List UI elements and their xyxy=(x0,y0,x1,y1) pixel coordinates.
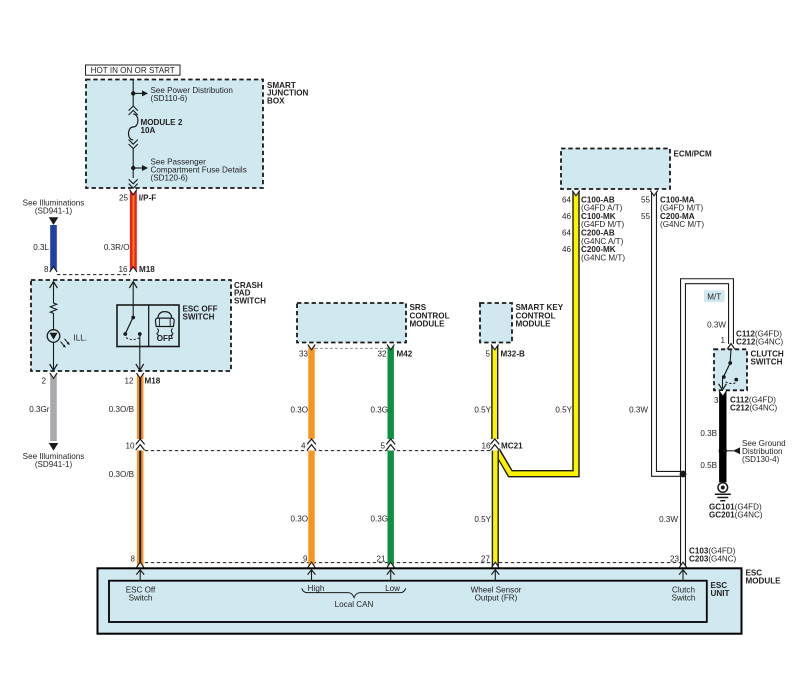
ecm yellow pin labels xyxy=(562,195,625,262)
notch orange O/B bottom xyxy=(137,562,144,567)
svg-text:MODULE: MODULE xyxy=(746,577,782,586)
svg-text:0.3G: 0.3G xyxy=(370,515,388,524)
svg-text:0.3W: 0.3W xyxy=(659,515,678,524)
esc off switch entry arrow xyxy=(136,570,144,580)
notch 0.3W bottom xyxy=(679,562,686,567)
inline connector 4 xyxy=(307,439,316,451)
svg-text:2: 2 xyxy=(41,377,46,386)
notch red wire top xyxy=(130,190,137,195)
esc white pin labels xyxy=(689,546,737,563)
svg-text:C212(G4NC): C212(G4NC) xyxy=(736,338,784,347)
svg-text:(G4NC M/T): (G4NC M/T) xyxy=(581,253,625,262)
svg-text:(G4NC M/T): (G4NC M/T) xyxy=(660,220,704,229)
svg-text:1: 1 xyxy=(720,336,725,345)
svg-text:(SD120-6): (SD120-6) xyxy=(151,174,189,183)
svg-text:Switch: Switch xyxy=(129,593,153,602)
can low entry arrow xyxy=(387,570,395,580)
svg-text:0.3O: 0.3O xyxy=(290,406,308,415)
notch CAN high bottom xyxy=(308,562,315,567)
notch blue wire bottom xyxy=(50,267,57,272)
svg-text:0.3R/O: 0.3R/O xyxy=(104,243,130,252)
svg-text:C203(G4NC): C203(G4NC) xyxy=(689,555,737,564)
svg-text:Output (FR): Output (FR) xyxy=(475,593,518,602)
srs control module body xyxy=(297,303,406,343)
notch gray wire top xyxy=(50,373,57,378)
esc module label xyxy=(746,568,782,585)
pin 25 I/P-F xyxy=(119,193,156,202)
pin 32 M42 xyxy=(377,350,412,359)
inline connector 10 xyxy=(136,439,145,451)
twisted pair dashed link xyxy=(315,347,388,349)
notch 0.5Y bottom xyxy=(492,562,499,567)
svg-text:8: 8 xyxy=(44,265,49,274)
wire 0.3W from ecm xyxy=(654,191,681,474)
svg-text:8: 8 xyxy=(130,555,135,564)
svg-text:10: 10 xyxy=(125,441,135,450)
notch 0.5Y branch top xyxy=(572,191,579,196)
svg-text:0.3O/B: 0.3O/B xyxy=(109,405,134,414)
svg-text:0.3L: 0.3L xyxy=(33,243,49,252)
svg-text:Switch: Switch xyxy=(672,593,696,602)
dashed link pin8 to pin16 xyxy=(57,274,130,276)
illumination branch entry arrow xyxy=(50,282,58,301)
notch CAN high top xyxy=(308,345,315,350)
svg-text:16: 16 xyxy=(481,441,491,450)
clutch switch body xyxy=(714,349,747,390)
inline connector MC21 xyxy=(490,439,499,451)
svg-text:21: 21 xyxy=(376,555,386,564)
clutch switch port label xyxy=(672,585,696,602)
esc off switch port label xyxy=(126,585,156,602)
svg-text:C212(G4NC): C212(G4NC) xyxy=(730,404,778,413)
smart junction box body xyxy=(86,80,263,189)
illumination exit arrow xyxy=(50,364,58,370)
svg-text:64: 64 xyxy=(562,229,572,238)
svg-text:9: 9 xyxy=(303,555,308,564)
node passenger fuse tap xyxy=(131,166,135,170)
wire 0.3O CAN high xyxy=(308,345,314,568)
svg-text:M42: M42 xyxy=(397,350,413,359)
illumination return arrowhead xyxy=(49,443,59,451)
ecm pcm body xyxy=(561,149,670,190)
esc off switch label xyxy=(183,305,218,322)
wire 0.5Y ecm branch xyxy=(496,191,576,474)
svg-text:(SD941-1): (SD941-1) xyxy=(35,460,73,469)
clutch switch entry arrow xyxy=(679,570,687,580)
svg-text:(SD130-4): (SD130-4) xyxy=(742,455,780,464)
notch orange O/B top xyxy=(137,373,144,378)
svg-text:M/T: M/T xyxy=(707,292,721,301)
arrow to passenger fuse details xyxy=(133,165,148,171)
wire below fuse xyxy=(132,149,134,178)
esc off switch entry arrow xyxy=(129,282,137,318)
svg-text:M32-B: M32-B xyxy=(501,350,525,359)
svg-text:5: 5 xyxy=(380,441,385,450)
svg-text:M18: M18 xyxy=(139,265,155,274)
svg-text:27: 27 xyxy=(481,555,491,564)
fuse MODULE 2 10A xyxy=(128,106,137,149)
svg-text:4: 4 xyxy=(301,441,306,450)
arrow to power distribution xyxy=(133,90,148,96)
dashed link bottom pins xyxy=(145,562,680,564)
svg-text:GC201(G4NC): GC201(G4NC) xyxy=(709,511,763,520)
notch 0.3W top xyxy=(650,191,657,196)
wire 0.3R/O red xyxy=(130,190,137,273)
svg-text:55: 55 xyxy=(641,212,651,221)
svg-text:(SD941-1): (SD941-1) xyxy=(35,206,73,215)
svg-text:16: 16 xyxy=(118,265,128,274)
svg-text:0.3W: 0.3W xyxy=(629,406,648,415)
clutch pin labels lower xyxy=(730,395,778,412)
clutch switch contacts xyxy=(722,349,738,383)
svg-text:0.3B: 0.3B xyxy=(700,429,717,438)
svg-text:46: 46 xyxy=(562,212,572,221)
illumination feed arrowhead xyxy=(49,217,59,225)
wire 0.3L blue xyxy=(50,225,57,272)
svg-text:(SD110-6): (SD110-6) xyxy=(151,94,188,103)
car off icon xyxy=(155,312,174,343)
svg-text:0.3W: 0.3W xyxy=(707,321,726,330)
esc module body xyxy=(98,568,742,633)
wire lamp to exit xyxy=(53,342,55,369)
svg-text:33: 33 xyxy=(299,350,309,359)
pin 12 M18 xyxy=(124,377,160,386)
clutch pin labels upper xyxy=(736,329,784,346)
svg-text:Local CAN: Local CAN xyxy=(335,600,374,609)
wire 0.3W m/t loop xyxy=(683,281,731,474)
esc off switch body xyxy=(117,305,179,347)
svg-text:46: 46 xyxy=(562,245,572,254)
svg-text:SWITCH: SWITCH xyxy=(751,358,783,367)
clutch entry arrow xyxy=(727,344,735,350)
wire inside SJB xyxy=(132,80,134,107)
can high entry arrow xyxy=(308,570,316,580)
switch to exit wire xyxy=(139,335,141,369)
svg-text:0.5Y: 0.5Y xyxy=(555,406,572,415)
switch contacts xyxy=(123,316,141,340)
svg-text:55: 55 xyxy=(641,195,651,204)
notch CAN low top xyxy=(387,345,394,350)
svg-text:0.3O: 0.3O xyxy=(290,515,308,524)
svg-text:0.3O/B: 0.3O/B xyxy=(109,470,134,479)
lamp ILL xyxy=(47,330,60,343)
wire 0.3O/B orange-black xyxy=(137,373,144,568)
switch exit arrow xyxy=(136,364,144,370)
svg-text:0.3Gr: 0.3Gr xyxy=(29,405,50,414)
svg-text:12: 12 xyxy=(124,377,134,386)
pin 5 M32-B xyxy=(485,350,524,359)
svg-text:M18: M18 xyxy=(145,377,161,386)
svg-text:UNIT: UNIT xyxy=(711,589,730,598)
svg-text:ECM/PCM: ECM/PCM xyxy=(674,149,712,158)
ground GC101 GC201 xyxy=(715,483,731,501)
arrow to ground distribution xyxy=(723,447,740,454)
wire resistor to lamp xyxy=(53,316,55,330)
lamp rays xyxy=(61,339,70,348)
esc unit body xyxy=(109,581,707,622)
wire 0.3G CAN low xyxy=(388,345,394,568)
inline connector 5 xyxy=(386,439,395,451)
m/t tag xyxy=(704,290,725,302)
wire 0.3Gr gray xyxy=(50,373,57,441)
svg-text:0.5Y: 0.5Y xyxy=(474,515,491,524)
svg-text:OFF: OFF xyxy=(157,334,173,343)
svg-text:25: 25 xyxy=(119,193,129,202)
svg-text:HOT IN ON OR START: HOT IN ON OR START xyxy=(91,66,175,75)
svg-text:High: High xyxy=(308,584,325,593)
clutch exit arrow xyxy=(719,378,727,390)
svg-text:SWITCH: SWITCH xyxy=(183,313,215,322)
pin 16 M18 xyxy=(118,265,155,274)
ecm white pin labels xyxy=(641,195,704,229)
esc unit label xyxy=(711,581,730,598)
SJB exit arrow xyxy=(129,179,138,188)
node power distribution tap xyxy=(131,91,135,95)
svg-text:0.5B: 0.5B xyxy=(700,461,717,470)
node ground distribution tap xyxy=(719,447,727,455)
svg-text:10A: 10A xyxy=(141,126,156,135)
wheel sensor port label xyxy=(471,585,522,602)
clutch switch label xyxy=(751,350,784,367)
notch CAN low bottom xyxy=(387,562,394,567)
notch red wire bottom xyxy=(130,267,137,272)
svg-text:0.5Y: 0.5Y xyxy=(474,406,491,415)
svg-text:Low: Low xyxy=(385,584,400,593)
notch black wire top xyxy=(719,391,726,396)
wire 0.3W to esc xyxy=(680,474,686,568)
wheel sensor entry arrow xyxy=(491,570,499,580)
svg-text:3: 3 xyxy=(714,396,719,405)
svg-text:64: 64 xyxy=(562,195,572,204)
svg-text:32: 32 xyxy=(377,350,387,359)
dashed link mid connectors xyxy=(145,450,491,452)
wire 0.3B black xyxy=(719,391,726,482)
svg-text:I/P-F: I/P-F xyxy=(139,193,157,202)
wire 0.5Y upper xyxy=(491,345,498,441)
svg-text:5: 5 xyxy=(485,350,490,359)
notch 0.5Y top xyxy=(491,345,498,350)
svg-text:23: 23 xyxy=(670,555,680,564)
smart key control module body xyxy=(480,303,512,343)
ground labels xyxy=(709,502,763,519)
node white wire junction xyxy=(680,471,687,478)
svg-text:0.3G: 0.3G xyxy=(370,406,388,415)
crash pad switch body xyxy=(31,280,231,371)
wire 0.5Y lower xyxy=(492,444,499,568)
resistor ILL xyxy=(50,301,56,317)
hot in on or start tag xyxy=(86,65,181,75)
svg-text:MC21: MC21 xyxy=(501,441,523,450)
local can brace xyxy=(302,588,406,597)
svg-text:ILL.: ILL. xyxy=(74,334,88,343)
pin 16 MC21 xyxy=(481,441,523,450)
